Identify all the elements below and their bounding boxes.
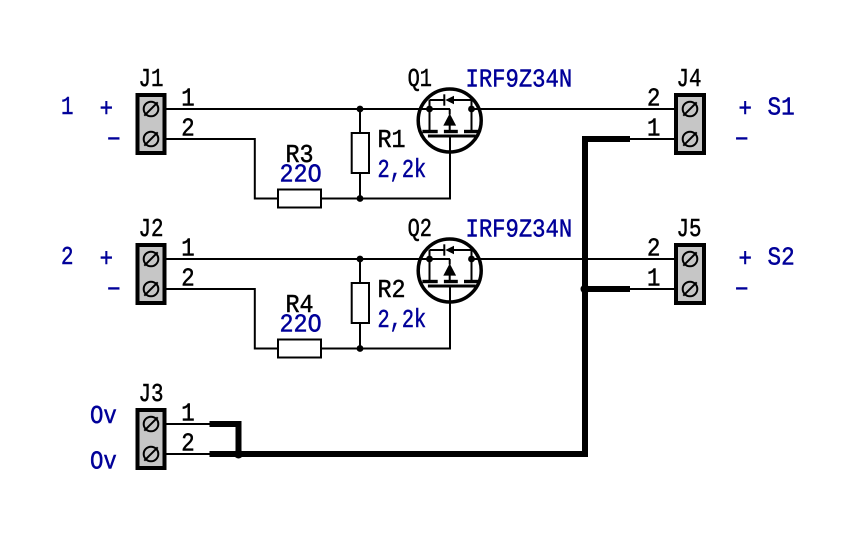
- svg-text:2,2k: 2,2k: [378, 156, 427, 185]
- wire R3 right to Q1 gate: [321, 136, 450, 199]
- resistor R1: [352, 109, 369, 199]
- svg-text:−: −: [735, 277, 748, 306]
- svg-text:Q2: Q2: [408, 215, 432, 244]
- svg-text:S2: S2: [768, 244, 795, 273]
- svg-text:−: −: [107, 277, 120, 306]
- wire R4 right to Q2 gate: [321, 286, 450, 349]
- svg-text:+: +: [100, 246, 113, 275]
- svg-text:J2: J2: [139, 215, 164, 245]
- wire J4.1 lead: [630, 138, 674, 140]
- svg-text:2: 2: [647, 235, 660, 264]
- svg-text:Q1: Q1: [408, 65, 432, 94]
- svg-text:22O: 22O: [280, 310, 322, 339]
- svg-text:Ov: Ov: [90, 448, 117, 477]
- wire J5.1 lead: [630, 288, 674, 290]
- connector J1: [138, 95, 165, 153]
- junction dot R1 bottom: [357, 195, 364, 202]
- resistor R4: [278, 340, 321, 358]
- svg-text:1: 1: [61, 93, 73, 123]
- thick bus wire branch to J5.1: [585, 286, 630, 292]
- thick bus wire 0v run to J4.1: [210, 139, 631, 454]
- svg-text:2: 2: [61, 243, 73, 273]
- svg-text:Ov: Ov: [90, 403, 117, 432]
- wire J3.1 lead: [167, 423, 212, 425]
- svg-text:S1: S1: [768, 94, 795, 123]
- thick bus wire J3.1 jumper: [210, 424, 239, 451]
- wire J3.2 lead: [167, 453, 212, 455]
- connector J2: [138, 245, 165, 303]
- transistor Q2: [418, 239, 481, 302]
- svg-text:22O: 22O: [280, 160, 322, 189]
- junction dot bus J3 jumper: [234, 450, 243, 459]
- junction dot bus J5 branch: [581, 285, 590, 294]
- svg-text:J3: J3: [139, 380, 164, 410]
- svg-text:IRF9Z34N: IRF9Z34N: [466, 216, 573, 245]
- junction dot R2 top: [357, 256, 364, 263]
- svg-text:2: 2: [181, 430, 194, 459]
- svg-text:J5: J5: [677, 215, 702, 245]
- svg-text:J4: J4: [677, 65, 702, 95]
- resistor R3: [278, 190, 321, 208]
- svg-text:2: 2: [181, 265, 194, 294]
- wire J1.2 to R3 left: [167, 139, 279, 199]
- svg-text:+: +: [738, 96, 751, 125]
- svg-text:IRF9Z34N: IRF9Z34N: [466, 66, 573, 95]
- svg-text:1: 1: [181, 235, 194, 264]
- svg-text:2: 2: [181, 115, 194, 144]
- resistor R2: [352, 259, 369, 349]
- svg-text:−: −: [107, 127, 120, 156]
- wire Q2 drain to J5.2: [472, 258, 675, 260]
- svg-text:2,2k: 2,2k: [378, 306, 427, 335]
- svg-text:+: +: [738, 246, 751, 275]
- junction dot R1 top: [357, 106, 364, 113]
- svg-text:R2: R2: [378, 276, 406, 305]
- svg-text:J1: J1: [139, 65, 164, 95]
- wire J2.2 to R4 left: [167, 289, 279, 349]
- svg-text:R1: R1: [378, 126, 406, 155]
- transistor Q1: [418, 89, 481, 152]
- wire Q1 drain to J4.2: [472, 108, 675, 110]
- wire J2.1 to Q2 source/bulk: [167, 258, 451, 260]
- connector J3: [138, 410, 165, 468]
- svg-text:2: 2: [647, 85, 660, 114]
- connector J4: [676, 95, 704, 153]
- svg-text:1: 1: [181, 400, 194, 429]
- svg-text:1: 1: [647, 265, 660, 294]
- svg-text:+: +: [100, 96, 113, 125]
- svg-text:1: 1: [647, 115, 660, 144]
- wire J1.1 to Q1 source/bulk: [167, 108, 451, 110]
- svg-text:1: 1: [181, 85, 194, 114]
- connector J5: [676, 245, 704, 303]
- junction dot R2 bottom: [357, 345, 364, 352]
- svg-text:−: −: [735, 127, 748, 156]
